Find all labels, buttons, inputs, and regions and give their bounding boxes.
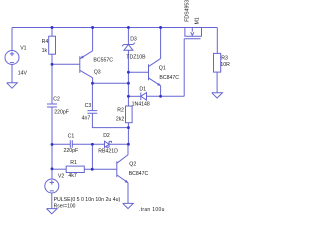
wire D1 to gate <box>147 95 185 97</box>
label C3 <box>85 103 92 109</box>
junction V2 top <box>51 167 54 170</box>
resistor R4 <box>49 36 56 54</box>
label Q2 <box>129 162 136 168</box>
junction D2 right <box>127 143 130 146</box>
junction Q1 base tee <box>127 71 130 74</box>
wire C3 top <box>91 83 93 110</box>
svg-text:D2: D2 <box>103 133 110 139</box>
capacitor C2 <box>47 104 57 107</box>
value BC557C <box>93 57 113 63</box>
wire left rail to R1 tap <box>51 144 53 168</box>
svg-text:14V: 14V <box>18 71 28 77</box>
transistor Q3 <box>80 51 93 78</box>
resistor R1 <box>66 166 84 172</box>
value 220pF C2 <box>54 110 69 116</box>
label Q1 <box>159 66 166 72</box>
label FDS4953 <box>184 0 190 22</box>
label D3 <box>130 36 137 42</box>
wire R2 bottom <box>127 123 129 145</box>
wire C2 bottom <box>51 107 53 144</box>
wire R1 to Q2 base <box>84 168 117 170</box>
diode D2 <box>105 141 112 147</box>
svg-text:BC847C: BC847C <box>129 171 149 177</box>
wire zener rail top <box>127 28 129 45</box>
svg-text:BC847C: BC847C <box>159 75 179 81</box>
svg-text:D3: D3 <box>130 36 137 42</box>
svg-text:R1: R1 <box>70 160 77 166</box>
label C1 <box>68 133 75 139</box>
value 14V <box>18 71 28 77</box>
junction Q1 emitter <box>159 95 162 98</box>
value 1k <box>42 48 48 54</box>
wire D1 node <box>128 95 140 97</box>
value BC847C Q1 <box>159 75 179 81</box>
value TDZ10B <box>126 55 146 61</box>
wire zener to D1 node <box>127 50 129 96</box>
transistor Q1 <box>149 59 161 86</box>
wire R4 top <box>51 28 53 37</box>
wire Q2 emitter down <box>127 183 129 204</box>
wire Q3 collector down <box>92 78 94 83</box>
junction Q3 collector <box>91 82 94 85</box>
label V1 <box>20 46 26 52</box>
capacitor C3 <box>88 111 98 114</box>
value RB421D <box>98 149 118 155</box>
svg-text:D1: D1 <box>139 87 146 93</box>
junction C1 left <box>51 143 54 146</box>
svg-text:M1: M1 <box>194 17 200 24</box>
wire R2 top <box>127 96 129 106</box>
directive tran <box>139 207 165 213</box>
wire C1 to D2 <box>72 143 104 145</box>
ground below Q2 <box>123 203 134 208</box>
wire mosfet gate lead <box>183 39 185 97</box>
resistor R2 <box>126 106 133 123</box>
wire Q3 emitter to rail <box>92 28 94 51</box>
label Q3 <box>94 70 101 76</box>
wire Q1 collector to rail <box>160 28 162 59</box>
value 1N4148 <box>132 102 150 108</box>
mosfet M1 <box>184 28 202 39</box>
label R4 <box>42 39 49 45</box>
svg-text:1k: 1k <box>42 48 48 54</box>
junction C1 right <box>91 143 94 146</box>
svg-text:2k2: 2k2 <box>116 117 124 123</box>
junction rail R4 <box>51 26 54 29</box>
svg-text:FDS4953: FDS4953 <box>184 0 190 22</box>
svg-text:R4: R4 <box>42 39 49 45</box>
voltage source V1 <box>5 51 19 65</box>
wire Q1 base <box>128 71 148 73</box>
wire D2 to node <box>109 143 128 145</box>
svg-text:C3: C3 <box>85 103 92 109</box>
svg-text:BC557C: BC557C <box>93 57 113 63</box>
junction rail Q1 <box>159 26 162 29</box>
wire C1 left <box>52 143 70 145</box>
svg-text:R2: R2 <box>117 108 124 114</box>
wire Q1 emitter down <box>160 86 162 97</box>
junction zener y83 <box>127 82 130 85</box>
svg-text:10R: 10R <box>220 62 230 68</box>
diode D1 <box>141 93 147 101</box>
svg-text:V1: V1 <box>20 46 26 52</box>
svg-text:Q1: Q1 <box>159 66 166 72</box>
svg-text:PULSE(0 5 0 10n 10n 2u 4u): PULSE(0 5 0 10n 10n 2u 4u) <box>54 197 121 203</box>
wire R4 bottom to C2 <box>51 54 53 104</box>
label R2 <box>117 108 124 114</box>
value PULSE <box>54 197 121 203</box>
value 2k2 <box>116 117 124 123</box>
junction rail D3 <box>127 26 130 29</box>
label C2 <box>53 97 60 103</box>
wire V1 top <box>11 28 13 51</box>
value Rser <box>54 204 76 210</box>
label D2 <box>103 133 110 139</box>
label R1 <box>70 160 77 166</box>
svg-text:Rser=100: Rser=100 <box>54 204 76 210</box>
ground below R3 <box>212 93 223 98</box>
svg-text:Q2: Q2 <box>129 162 136 168</box>
zener diode D3 <box>122 43 135 51</box>
resistor R3 <box>214 53 221 72</box>
svg-text:4n7: 4n7 <box>82 115 91 121</box>
svg-text:RB421D: RB421D <box>98 149 118 155</box>
label M1 <box>194 17 200 24</box>
svg-text:220pF: 220pF <box>64 148 79 154</box>
junction rail Q3 <box>91 26 94 29</box>
junction D1 left <box>127 95 130 98</box>
junction R4 bottom <box>51 63 54 66</box>
svg-text:TDZ10B: TDZ10B <box>126 55 146 61</box>
svg-text:220pF: 220pF <box>54 110 69 116</box>
junction Q2 base <box>91 168 94 171</box>
label R3 <box>221 55 228 61</box>
svg-text:C2: C2 <box>53 97 60 103</box>
label D1 <box>139 87 146 93</box>
capacitor C1 <box>70 140 72 148</box>
wire Q2 collector up <box>127 144 129 155</box>
ground below V2 <box>47 209 58 214</box>
value BC847C Q2 <box>129 171 149 177</box>
transistor Q2 <box>117 155 128 183</box>
value 220pF C1 <box>64 148 79 154</box>
junction R2 bottom <box>127 126 130 129</box>
wire top rail <box>12 27 217 29</box>
svg-text:.tran 100u: .tran 100u <box>139 207 165 213</box>
label V2 <box>58 173 64 179</box>
svg-text:4k7: 4k7 <box>68 173 76 179</box>
ground below V1 <box>7 83 18 88</box>
wire V2 bottom <box>51 193 53 209</box>
wire R3 bottom <box>216 72 218 93</box>
svg-text:Q3: Q3 <box>94 70 101 76</box>
wire C3 bottom to R2 node <box>92 113 128 127</box>
svg-text:C1: C1 <box>68 133 75 139</box>
wire to V2 top <box>51 169 53 179</box>
wire Q3 base <box>52 63 80 65</box>
value 10R <box>220 62 230 68</box>
value 4k7 <box>68 173 76 179</box>
svg-text:R3: R3 <box>221 55 228 61</box>
wire V1 bottom to ground <box>11 65 13 84</box>
wire node across y83 <box>93 82 129 84</box>
svg-text:1N4148: 1N4148 <box>132 102 150 108</box>
wire C1 node down <box>91 144 93 169</box>
value 4n7 <box>82 115 91 121</box>
voltage source V2 <box>45 179 59 193</box>
wire R1 left <box>52 168 66 170</box>
svg-text:V2: V2 <box>58 173 64 179</box>
wire rail right drop to R3 <box>216 28 218 54</box>
